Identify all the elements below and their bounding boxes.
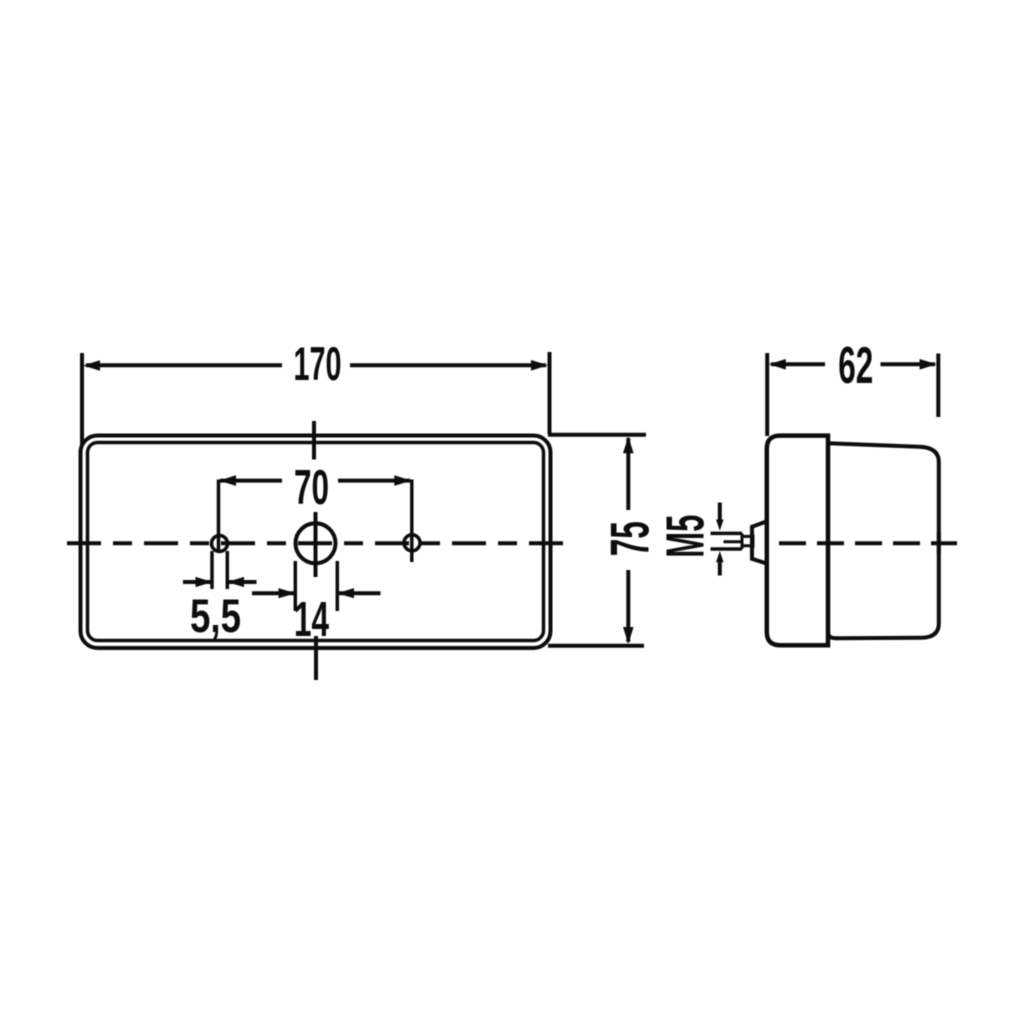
dimension 70 right arrowhead [394,475,411,486]
svg-text:14: 14 [294,593,329,647]
dimension 5,5 left arrow line [183,580,211,584]
M5 screw thread block [742,533,753,549]
M5 screw shaft top line [711,532,743,536]
side view housing block [828,443,939,638]
dimension 70 left arrowhead [219,475,236,486]
vertical centerline mid segment through hole (front view) [314,512,318,577]
dimension 170 right arrowhead [531,360,548,371]
dimension 170 right extension line [548,352,552,434]
side view dashed centerline [779,541,957,545]
side view lens block [767,436,828,646]
dimension 170 left extension line [80,353,84,445]
dimension 75 top arrowhead [623,436,634,453]
dimension 5,5 right extension line [226,551,230,589]
dimension 62 line right segment [881,362,936,366]
side view centerline tick at right edge [937,533,941,555]
central mounting hole dia 14 [296,523,336,563]
dimension 75 bottom extension line [548,644,644,648]
dimension M5 lower arrowhead (up) [716,551,724,562]
dimension 70 line left segment [220,479,282,483]
dimension 170 left arrowhead [83,360,100,371]
vertical centerline bottom tick (front view) [314,636,318,680]
dimension 62 left extension line [765,353,769,436]
left hole vertical centerline / extension [217,480,221,552]
lamp body inner outline (front view) [88,443,544,641]
dimension 62 right arrowhead [920,359,937,370]
svg-text:62: 62 [838,337,873,395]
M5 screw centerline dash [724,540,741,543]
dimension M5 lower arrow line [718,562,722,576]
dimension 14 left arrow line [252,591,294,595]
dimension 14 left arrowhead [279,588,296,598]
dimension 75 top extension line [548,433,646,437]
dimension 62 left arrowhead [769,359,786,370]
svg-text:75: 75 [600,521,661,556]
dimension 62 right extension line [936,354,940,418]
dimension 75 line bottom segment [626,570,630,642]
vertical centerline top tick (front view) [312,421,316,460]
dimension 5,5 right arrow line [228,580,257,584]
dimension 62 line left segment [771,362,825,366]
svg-text:170: 170 [294,337,342,390]
M5 screw shaft bottom line [711,547,743,551]
dimension 14 left extension line [294,561,298,611]
dimension M5 upper arrowhead (down) [716,520,724,531]
svg-text:M5: M5 [657,515,716,558]
svg-text:70: 70 [294,461,329,515]
horizontal centerline (front view) [67,541,566,545]
dimension 170 line right segment [350,363,546,367]
dimension 14 right arrow line [339,591,381,595]
right mounting hole dia 5,5 [404,535,420,551]
dimension 5,5 left extension line [210,551,214,589]
dimension 75 bottom arrowhead [623,627,634,644]
M5 screw mounting boss [752,521,767,563]
dimension 14 right extension line [336,561,340,611]
dimension 5,5 left arrowhead [196,577,213,587]
lamp body outer outline (front view) [81,436,551,649]
dimension 70 line right segment [338,479,410,483]
dimension 5,5 right arrowhead [227,577,244,587]
svg-text:5,5: 5,5 [190,589,241,642]
dimension M5 upper arrow line [718,503,722,521]
dimension 170 line left segment [86,363,282,367]
dimension 14 right arrowhead [337,588,354,598]
right hole vertical centerline / extension [410,480,414,563]
left mounting hole dia 5,5 [212,536,228,552]
dimension 75 line top segment [626,438,630,510]
